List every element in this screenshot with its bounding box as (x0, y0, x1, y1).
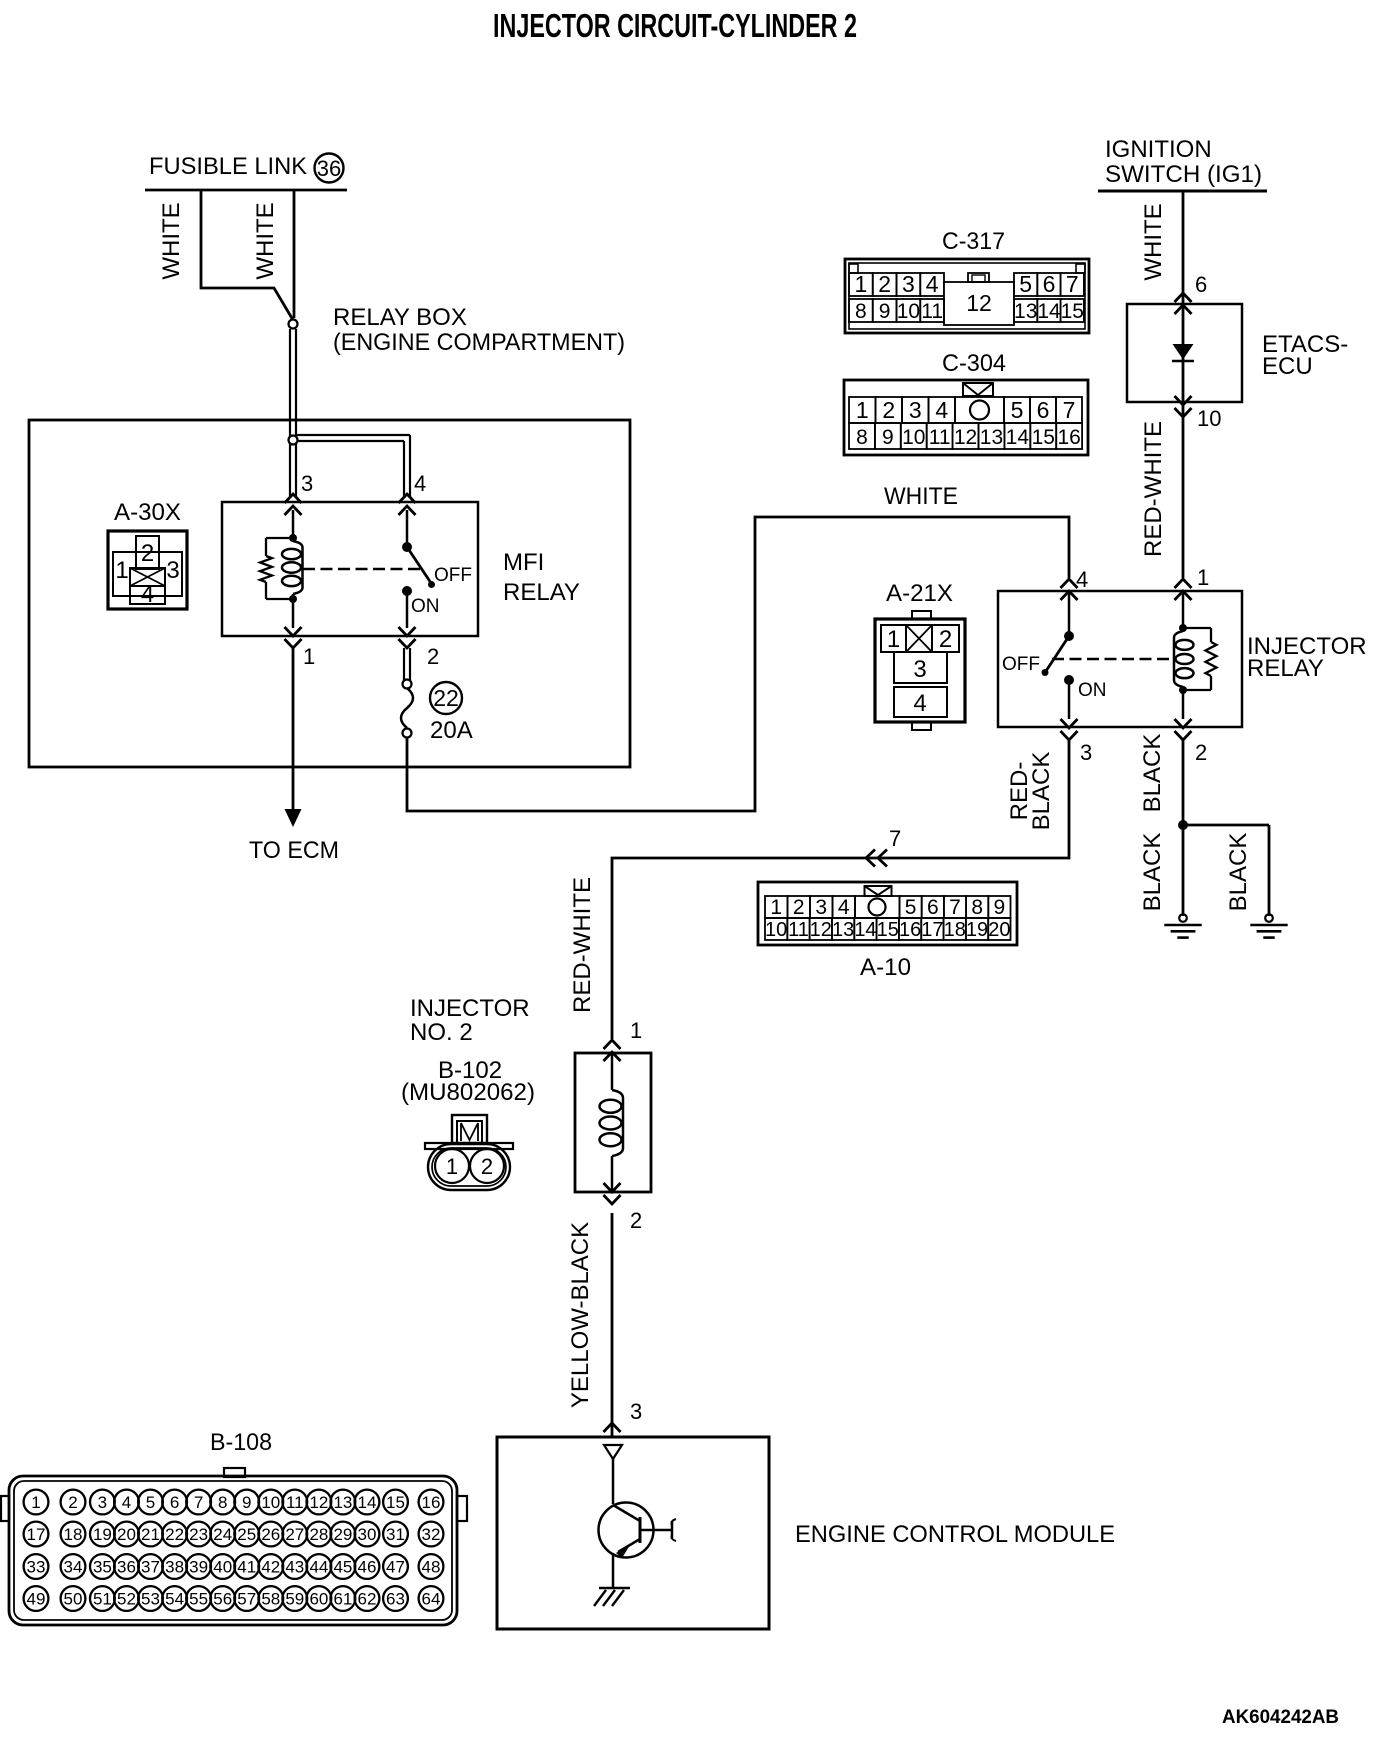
fusible link bus bar (145, 189, 347, 192)
svg-text:ON: ON (411, 596, 440, 617)
pin 3 entry arrow (ECM) (604, 1423, 621, 1432)
relay box (engine compartment) outline (29, 420, 630, 767)
svg-text:12: 12 (309, 1493, 328, 1512)
svg-text:1: 1 (856, 397, 869, 423)
ignition switch bus bar (1098, 190, 1267, 193)
svg-text:2: 2 (427, 644, 439, 669)
svg-text:IGNITION: IGNITION (1105, 136, 1212, 163)
svg-text:30: 30 (358, 1525, 377, 1544)
fuse number circle 22 (430, 682, 462, 714)
svg-text:19: 19 (93, 1525, 112, 1544)
svg-text:15: 15 (1061, 300, 1084, 323)
pin 3 entry arrows (285, 494, 302, 515)
svg-text:B-108: B-108 (210, 1429, 272, 1456)
svg-text:ON: ON (1078, 680, 1107, 701)
ETACS internal wire (1182, 304, 1185, 402)
svg-text:WHITE: WHITE (252, 202, 279, 279)
svg-text:39: 39 (189, 1558, 208, 1577)
svg-text:59: 59 (285, 1590, 304, 1609)
svg-text:RELAY BOX: RELAY BOX (333, 304, 467, 331)
svg-text:64: 64 (422, 1590, 441, 1609)
arrowhead to ECM (285, 809, 302, 827)
svg-text:RELAY: RELAY (1247, 655, 1324, 682)
injector relay coil (1174, 631, 1183, 687)
svg-text:46: 46 (358, 1558, 377, 1577)
svg-text:34: 34 (64, 1558, 83, 1577)
svg-text:1: 1 (303, 644, 315, 669)
svg-text:BLACK: BLACK (1028, 752, 1055, 831)
svg-text:BLACK: BLACK (1139, 734, 1166, 813)
wire double-line branch to MFI relay pin 4 (297, 434, 410, 436)
svg-text:17: 17 (921, 919, 943, 941)
svg-text:56: 56 (213, 1590, 232, 1609)
svg-text:3: 3 (815, 896, 827, 919)
svg-text:A-30X: A-30X (114, 499, 181, 526)
MFI relay coil wire (292, 510, 295, 541)
svg-text:14: 14 (1006, 426, 1030, 449)
relay actuating dashed link (303, 568, 424, 571)
wire ignition to ETACS-ECU (1182, 191, 1185, 304)
svg-text:22: 22 (165, 1525, 184, 1544)
svg-text:24: 24 (213, 1525, 232, 1544)
svg-text:4: 4 (141, 581, 154, 608)
svg-text:37: 37 (141, 1558, 160, 1577)
svg-text:11: 11 (921, 300, 943, 323)
injector component box (575, 1053, 651, 1192)
svg-text:11: 11 (788, 919, 809, 941)
svg-text:RED-WHITE: RED-WHITE (1140, 421, 1167, 557)
svg-text:62: 62 (358, 1590, 377, 1609)
svg-text:63: 63 (386, 1590, 405, 1609)
injector relay switch lower wire (1068, 680, 1071, 719)
svg-text:2: 2 (878, 271, 891, 297)
svg-text:7: 7 (949, 896, 961, 919)
pin 7 pass-through arrows (A-10) (866, 850, 887, 867)
ETACS-ECU box (1127, 304, 1242, 402)
svg-text:BLACK: BLACK (1225, 833, 1252, 912)
svg-text:3: 3 (301, 471, 313, 496)
svg-text:25: 25 (237, 1525, 256, 1544)
svg-text:9: 9 (242, 1493, 251, 1512)
svg-text:5: 5 (146, 1493, 155, 1512)
svg-text:36: 36 (317, 156, 341, 181)
node coil bottom (injector relay) (1179, 686, 1187, 694)
svg-text:NO. 2: NO. 2 (410, 1019, 473, 1046)
svg-text:(MU802062): (MU802062) (401, 1079, 535, 1106)
svg-text:WHITE: WHITE (158, 202, 185, 279)
svg-text:18: 18 (944, 919, 966, 941)
injector relay switch wire (1068, 591, 1071, 636)
svg-text:14: 14 (1037, 300, 1061, 323)
switch pivot node (402, 542, 412, 552)
fuse 22 element (403, 680, 412, 689)
svg-text:4: 4 (838, 896, 850, 919)
svg-text:2: 2 (1195, 740, 1207, 765)
svg-text:6: 6 (1043, 271, 1056, 297)
wire double-line feed down to MFI relay pin 3 (289, 329, 291, 497)
svg-text:WHITE: WHITE (1140, 203, 1167, 280)
svg-text:16: 16 (1057, 426, 1080, 449)
svg-text:18: 18 (64, 1525, 83, 1544)
MFI relay switch lower wire (406, 591, 409, 628)
svg-text:7: 7 (194, 1493, 203, 1512)
svg-text:16: 16 (422, 1493, 441, 1512)
svg-text:57: 57 (237, 1590, 256, 1609)
svg-text:5: 5 (1019, 271, 1032, 297)
connector C-304 body (844, 380, 1088, 455)
svg-text:RELAY: RELAY (503, 579, 580, 606)
svg-text:27: 27 (285, 1525, 304, 1544)
pin 3 exit arrows (1061, 719, 1078, 740)
svg-text:9: 9 (879, 300, 891, 323)
svg-text:38: 38 (165, 1558, 184, 1577)
svg-text:1: 1 (115, 557, 128, 584)
connector A-30X icon (108, 531, 187, 609)
pin 1 entry arrows (1175, 579, 1192, 600)
wire MFI pin1 to ECM arrow (292, 648, 295, 812)
wire fuse to injector relay pin 4 (WHITE) (407, 517, 1069, 811)
ON contact node (injector relay) (1064, 675, 1074, 685)
injector relay box (998, 591, 1242, 727)
svg-text:28: 28 (309, 1525, 328, 1544)
wire branch to right ground (1183, 824, 1269, 827)
injector coil wire (611, 1053, 614, 1090)
svg-text:20: 20 (988, 919, 1010, 941)
svg-text:6: 6 (170, 1493, 179, 1512)
svg-text:2: 2 (882, 397, 895, 423)
svg-text:48: 48 (422, 1558, 441, 1577)
svg-text:17: 17 (27, 1525, 46, 1544)
svg-text:A-21X: A-21X (886, 580, 953, 607)
svg-text:12: 12 (954, 426, 977, 449)
engine control module box (497, 1437, 769, 1629)
svg-text:3: 3 (630, 1399, 642, 1424)
svg-text:50: 50 (64, 1590, 83, 1609)
svg-text:10: 10 (261, 1493, 280, 1512)
svg-text:1: 1 (31, 1493, 40, 1512)
svg-text:20A: 20A (430, 717, 473, 744)
svg-text:5: 5 (1011, 397, 1024, 423)
connector A-10 body (758, 882, 1017, 945)
svg-text:4: 4 (122, 1493, 131, 1512)
junction node ground split (1178, 820, 1188, 830)
svg-text:15: 15 (1032, 426, 1055, 449)
OFF contact (injector relay) (1042, 669, 1049, 676)
svg-text:4: 4 (414, 471, 426, 496)
svg-text:2: 2 (793, 896, 805, 919)
node coil bottom (289, 595, 297, 603)
svg-text:7: 7 (1066, 271, 1079, 297)
injector coil (612, 1090, 623, 1156)
svg-text:12: 12 (966, 290, 992, 316)
svg-text:OFF: OFF (1002, 654, 1040, 675)
svg-text:9: 9 (882, 426, 894, 449)
svg-text:29: 29 (333, 1525, 352, 1544)
svg-text:6: 6 (1195, 272, 1207, 297)
svg-text:21: 21 (141, 1525, 160, 1544)
svg-text:47: 47 (386, 1558, 405, 1577)
svg-text:3: 3 (98, 1493, 107, 1512)
node coil top (289, 534, 297, 542)
svg-text:1: 1 (1197, 565, 1209, 590)
MFI relay coil (293, 541, 303, 594)
svg-text:49: 49 (27, 1590, 46, 1609)
svg-text:13: 13 (980, 426, 1003, 449)
switch pivot node (injector relay) (1064, 631, 1074, 641)
svg-text:3: 3 (902, 271, 915, 297)
svg-text:14: 14 (854, 919, 876, 941)
ground (ECM, hatched) (599, 1587, 630, 1590)
svg-text:INJECTOR: INJECTOR (410, 995, 530, 1022)
svg-text:4: 4 (926, 271, 939, 297)
svg-text:10: 10 (897, 300, 920, 323)
svg-text:1: 1 (446, 1154, 458, 1179)
fusible link 36 circle (315, 154, 344, 183)
connector A-21X icon (875, 611, 965, 730)
wire double-line MFI pin2 to fuse (403, 648, 405, 680)
svg-text:10: 10 (902, 426, 925, 449)
resistor (MFI relay) (260, 556, 272, 582)
svg-text:15: 15 (386, 1493, 405, 1512)
input triangle (ECM) (604, 1445, 622, 1459)
svg-text:41: 41 (237, 1558, 256, 1577)
wire injector to ECM (yellow-black) (611, 1213, 614, 1437)
MFI relay resistor branch (266, 537, 293, 539)
svg-text:2: 2 (939, 626, 952, 653)
pin 4 entry arrows (1061, 579, 1078, 600)
resistor (injector relay) (1206, 642, 1217, 676)
svg-text:61: 61 (333, 1590, 352, 1609)
svg-text:52: 52 (117, 1590, 136, 1609)
relay actuating dashed link (injector relay) (1052, 658, 1170, 661)
svg-text:8: 8 (855, 300, 867, 323)
svg-text:7: 7 (1063, 397, 1076, 423)
svg-text:RED-WHITE: RED-WHITE (569, 877, 596, 1013)
svg-text:7: 7 (889, 826, 901, 851)
svg-text:14: 14 (358, 1493, 377, 1512)
svg-text:53: 53 (141, 1590, 160, 1609)
ON contact node (402, 586, 412, 596)
svg-text:3: 3 (909, 397, 922, 423)
diode (ETACS) (1173, 344, 1194, 360)
switch blade (to OFF) (407, 547, 431, 583)
connector C-317 body (845, 259, 1089, 333)
svg-text:12: 12 (810, 919, 832, 941)
svg-text:1: 1 (770, 896, 782, 919)
svg-text:13: 13 (333, 1493, 352, 1512)
connector B-102 icon (425, 1115, 513, 1190)
svg-text:C-304: C-304 (942, 350, 1006, 377)
svg-text:43: 43 (285, 1558, 304, 1577)
svg-text:23: 23 (189, 1525, 208, 1544)
svg-text:2: 2 (481, 1154, 493, 1179)
svg-text:3: 3 (913, 656, 926, 683)
svg-text:6: 6 (1037, 397, 1050, 423)
svg-text:55: 55 (189, 1590, 208, 1609)
svg-text:3: 3 (1080, 740, 1092, 765)
svg-text:11: 11 (929, 426, 951, 449)
svg-text:8: 8 (971, 896, 983, 919)
svg-text:SWITCH (IG1): SWITCH (IG1) (1105, 161, 1262, 188)
ground (left) (1179, 914, 1187, 922)
injector relay resistor branch (1183, 627, 1211, 629)
svg-text:A-10: A-10 (860, 954, 911, 981)
svg-text:AK604242AB: AK604242AB (1222, 1707, 1339, 1728)
junction node branch to pin 4 (289, 436, 298, 445)
svg-text:40: 40 (213, 1558, 232, 1577)
svg-text:1: 1 (887, 626, 900, 653)
svg-text:ENGINE CONTROL MODULE: ENGINE CONTROL MODULE (795, 1521, 1115, 1548)
ground (right) (1265, 914, 1273, 922)
wire triangle to transistor (612, 1459, 615, 1504)
svg-text:1: 1 (855, 271, 868, 297)
svg-text:32: 32 (422, 1525, 441, 1544)
wire white right from fusible link (293, 190, 296, 318)
pin 2 exit arrows (1175, 719, 1192, 740)
svg-text:42: 42 (261, 1558, 280, 1577)
svg-text:36: 36 (117, 1558, 136, 1577)
wire injector relay pin3 to injector no.2 (612, 740, 1069, 1039)
injector relay coil wire (1182, 591, 1185, 631)
svg-text:8: 8 (856, 426, 868, 449)
wire ETACS to injector relay pin 1 (1182, 402, 1185, 578)
svg-text:9: 9 (994, 896, 1006, 919)
svg-text:13: 13 (832, 919, 854, 941)
svg-text:4: 4 (913, 690, 926, 717)
svg-text:8: 8 (218, 1493, 227, 1512)
svg-text:31: 31 (386, 1525, 405, 1544)
pin 1 exit arrows (285, 627, 302, 648)
pin 4 entry arrows (399, 494, 416, 515)
pin 10 exit arrows (1175, 396, 1192, 417)
svg-text:26: 26 (261, 1525, 280, 1544)
MFI relay switch common wire (406, 510, 409, 547)
svg-text:YELLOW-BLACK: YELLOW-BLACK (567, 1222, 594, 1408)
junction node at relay box feed (289, 320, 298, 329)
svg-text:ECU: ECU (1262, 353, 1313, 380)
svg-text:58: 58 (261, 1590, 280, 1609)
svg-text:45: 45 (333, 1558, 352, 1577)
svg-text:WHITE: WHITE (884, 483, 958, 510)
svg-text:35: 35 (93, 1558, 112, 1577)
wire transistor emitter to ground (612, 1553, 615, 1588)
node coil top (injector relay) (1179, 624, 1187, 632)
svg-text:44: 44 (309, 1558, 328, 1577)
svg-text:60: 60 (309, 1590, 328, 1609)
svg-text:11: 11 (286, 1493, 304, 1512)
svg-text:(ENGINE COMPARTMENT): (ENGINE COMPARTMENT) (333, 329, 625, 356)
svg-text:3: 3 (166, 557, 179, 584)
svg-text:20: 20 (117, 1525, 136, 1544)
MFI relay box (222, 502, 478, 636)
svg-text:4: 4 (935, 397, 948, 423)
svg-text:16: 16 (899, 919, 921, 941)
svg-text:22: 22 (433, 685, 459, 711)
svg-text:19: 19 (966, 919, 988, 941)
transistor Q (ECM driver) (599, 1503, 677, 1559)
switch blade (injector relay, to OFF) (1046, 636, 1069, 671)
svg-text:2: 2 (630, 1208, 642, 1233)
svg-text:OFF: OFF (434, 565, 472, 586)
pin 6 entry arrows (1175, 293, 1192, 314)
svg-text:BLACK: BLACK (1139, 833, 1166, 912)
pin 2 exit arrows (injector) (604, 1183, 621, 1204)
svg-text:13: 13 (1014, 300, 1037, 323)
svg-text:MFI: MFI (503, 549, 544, 576)
pin 2 exit arrows (399, 627, 416, 648)
svg-text:4: 4 (1076, 567, 1088, 592)
svg-text:51: 51 (93, 1590, 112, 1609)
svg-text:INJECTOR CIRCUIT-CYLINDER 2: INJECTOR CIRCUIT-CYLINDER 2 (493, 7, 857, 44)
svg-text:FUSIBLE LINK: FUSIBLE LINK (149, 153, 307, 180)
wire white left from fusible link (201, 190, 293, 320)
svg-text:6: 6 (927, 896, 939, 919)
svg-text:TO ECM: TO ECM (249, 837, 339, 864)
svg-text:2: 2 (141, 540, 154, 567)
svg-text:5: 5 (905, 896, 917, 919)
svg-text:2: 2 (68, 1493, 77, 1512)
svg-text:54: 54 (165, 1590, 184, 1609)
svg-text:15: 15 (877, 919, 899, 941)
OFF contact (428, 581, 435, 588)
pin 1 entry arrows (injector) (604, 1040, 621, 1061)
svg-text:10: 10 (765, 919, 787, 941)
svg-text:33: 33 (27, 1558, 46, 1577)
svg-text:C-317: C-317 (942, 228, 1005, 255)
svg-text:10: 10 (1197, 406, 1221, 431)
svg-text:1: 1 (630, 1018, 642, 1043)
connector B-108 body (1, 1468, 467, 1625)
wire injector relay pin2 to ground (1182, 740, 1185, 916)
